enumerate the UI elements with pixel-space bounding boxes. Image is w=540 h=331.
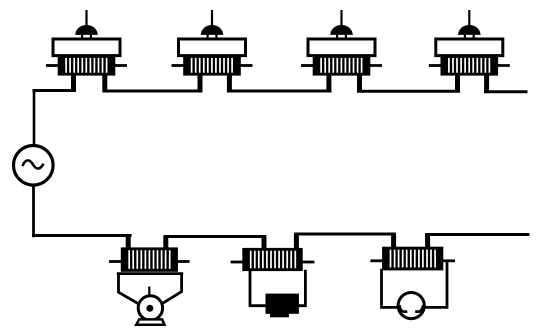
- transformer T3: [301, 10, 382, 92]
- wire T7-to-right-edge: [425, 233, 530, 236]
- transformer T4: [429, 10, 510, 93]
- wire source-to-bottom-bus: [32, 185, 35, 238]
- wire T6 secondary loop: [250, 270, 305, 306]
- wire T3-to-T4: [357, 90, 460, 93]
- wire T7 secondary loop: [382, 262, 448, 308]
- lamp L1: [398, 293, 424, 319]
- resistor R1: [266, 294, 299, 318]
- transformer T2: [172, 10, 253, 92]
- wire T4-to-right-edge: [484, 90, 528, 93]
- wire T5-to-T6: [164, 235, 266, 238]
- AC source G1: [14, 146, 54, 186]
- transformer T7: [370, 234, 455, 270]
- wire source-to-T1: [33, 89, 77, 92]
- wire source-to-T5: [32, 234, 131, 237]
- wire T6-to-T7: [294, 233, 396, 236]
- transformer T6: [231, 234, 315, 271]
- transformer T1: [46, 10, 127, 92]
- wire T2-to-T3: [227, 90, 332, 93]
- wire T1-to-T2: [103, 90, 203, 93]
- motor M1: [117, 273, 183, 325]
- wire riser bus-to-source: [33, 90, 36, 147]
- transformer T5: [109, 235, 190, 271]
